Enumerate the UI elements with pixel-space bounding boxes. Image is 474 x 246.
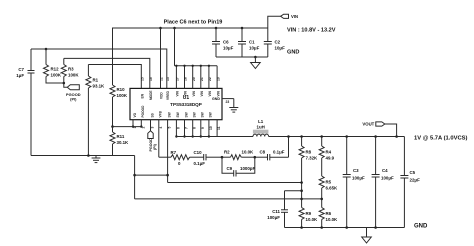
svg-text:R2: R2: [224, 150, 230, 155]
capacitor C6: [212, 28, 234, 57]
wire VFB row to R8 column: [168, 182, 302, 184]
svg-text:0.1μF: 0.1μF: [194, 161, 206, 166]
flag VIN: [268, 14, 298, 28]
svg-text:R3: R3: [68, 67, 74, 72]
pin 17 VIN bus stub: [192, 66, 194, 89]
svg-text:100K: 100K: [68, 73, 79, 78]
svg-text:VREG: VREG: [166, 90, 170, 100]
pin 3 PGOOD stub: [150, 120, 152, 131]
svg-text:12: 12: [160, 77, 164, 81]
pin 15 VIN bus stub: [175, 66, 177, 89]
svg-text:PGOOD: PGOOD: [141, 105, 145, 118]
svg-text:3: 3: [151, 127, 155, 129]
wire VIN pin bus: [175, 65, 218, 67]
wire trunk to VFB column: [135, 174, 168, 176]
wire VREG rail to pin: [31, 49, 167, 88]
wire VIN top rail: [112, 27, 268, 29]
svg-text:VIN: VIN: [208, 90, 212, 96]
resistor R4: [319, 137, 334, 177]
resistor R5: [319, 176, 338, 208]
svg-text:VIN: VIN: [192, 90, 196, 96]
svg-text:C1: C1: [249, 40, 255, 45]
resistor R11: [110, 127, 129, 156]
pin 23 GND stub: [212, 97, 234, 104]
svg-text:100K: 100K: [51, 73, 62, 78]
svg-text:SW: SW: [167, 112, 171, 117]
svg-text:10μF: 10μF: [249, 46, 260, 51]
inductor L1: [253, 119, 269, 136]
svg-text:R1: R1: [93, 78, 99, 83]
node rail-C4 junction: [374, 135, 377, 138]
svg-text:1V @ 5.7A (1.0VCS): 1V @ 5.7A (1.0VCS): [414, 135, 468, 141]
svg-text:SW: SW: [184, 112, 188, 117]
svg-text:Place C6 next to Pin19: Place C6 next to Pin19: [164, 19, 223, 25]
svg-text:C2: C2: [275, 40, 281, 45]
svg-text:R5: R5: [326, 180, 332, 185]
resistor R2: [222, 150, 255, 160]
svg-text:R9: R9: [306, 211, 312, 216]
pin SW stubs: [175, 120, 177, 137]
svg-text:23: 23: [226, 100, 230, 104]
node R8-trunk junction: [300, 198, 303, 201]
svg-text:C6: C6: [223, 40, 229, 45]
svg-text:5: 5: [168, 127, 172, 129]
svg-text:SS: SS: [150, 113, 154, 117]
ground output: [362, 228, 372, 244]
node capbottom-gnd junction: [254, 56, 257, 59]
svg-text:VFB: VFB: [159, 110, 163, 117]
svg-text:10.0K: 10.0K: [306, 217, 319, 222]
svg-text:6.65K: 6.65K: [326, 186, 339, 191]
resistor R6: [319, 208, 338, 228]
svg-text:C4: C4: [382, 168, 388, 173]
pin 1 VO stub: [132, 120, 134, 127]
svg-text:7: 7: [185, 127, 189, 129]
svg-text:10.0K: 10.0K: [326, 217, 339, 222]
svg-text:VIN: VIN: [184, 90, 188, 96]
resistor R9: [299, 208, 318, 228]
svg-text:8: 8: [193, 127, 197, 129]
wire gnd trunk bottom row: [135, 198, 322, 200]
wire gnd trunk vertical: [134, 156, 136, 199]
flag PGOOD bottom: [148, 131, 157, 152]
svg-text:C10: C10: [194, 150, 203, 155]
node R8-VFBrow junction: [300, 181, 303, 184]
node R2-C8 junction: [254, 156, 257, 159]
svg-text:EN: EN: [141, 93, 145, 98]
svg-text:R4: R4: [326, 150, 332, 155]
svg-text:20: 20: [192, 77, 196, 81]
svg-text:SW: SW: [193, 112, 197, 117]
wire VIN bus feed: [174, 28, 176, 66]
svg-text:VIN : 10.8V - 13.2V: VIN : 10.8V - 13.2V: [287, 27, 336, 33]
svg-text:R6: R6: [326, 211, 332, 216]
svg-text:C8: C8: [260, 150, 266, 155]
svg-text:R10: R10: [117, 87, 126, 92]
node R8-C11row junction: [300, 189, 303, 192]
pin 16 VIN bus stub: [184, 66, 186, 89]
svg-text:4: 4: [159, 127, 163, 129]
svg-text:2: 2: [141, 127, 145, 129]
wire R3 top to MODE pin: [64, 58, 150, 88]
svg-text:10μF: 10μF: [223, 46, 234, 51]
svg-text:R11: R11: [117, 134, 125, 139]
ground power input: [251, 57, 261, 69]
capacitor C5: [400, 137, 420, 228]
capacitor C3: [343, 137, 365, 228]
svg-text:15: 15: [141, 77, 145, 81]
svg-text:93.1K: 93.1K: [93, 84, 106, 89]
svg-text:18: 18: [184, 77, 188, 81]
svg-text:GND: GND: [414, 224, 428, 230]
svg-text:17: 17: [176, 77, 180, 81]
node rail49-R12 junction: [45, 48, 48, 51]
svg-text:GND: GND: [212, 97, 220, 101]
svg-text:1uH: 1uH: [257, 125, 265, 130]
svg-text:GND: GND: [287, 50, 299, 56]
svg-text:VIN: VIN: [291, 14, 298, 19]
pin names bottom inside: [133, 105, 213, 118]
svg-text:1μF: 1μF: [16, 73, 24, 78]
wire EN riser from VIN rail: [160, 28, 162, 88]
svg-text:100K: 100K: [117, 93, 128, 98]
capacitor C10: [194, 150, 223, 166]
node SW bus junctions: [175, 135, 177, 137]
svg-text:1: 1: [133, 127, 137, 129]
resistor R12: [44, 49, 64, 83]
pin names top inside: [141, 90, 221, 100]
svg-text:100μF: 100μF: [267, 215, 280, 220]
pin numbers bottom row: [133, 126, 221, 130]
svg-text:C5: C5: [410, 170, 416, 175]
svg-text:11: 11: [217, 126, 221, 130]
svg-text:VIN: VIN: [216, 90, 220, 96]
node gndrail-R6 junction: [320, 226, 323, 229]
svg-text:10μF: 10μF: [275, 46, 286, 51]
node gndrail-C4 junction: [374, 226, 377, 229]
node rail-C3 junction: [345, 135, 348, 138]
capacitor C8: [255, 150, 289, 161]
svg-text:13: 13: [166, 77, 170, 81]
svg-text:R12: R12: [51, 67, 60, 72]
wire VOUT rail: [269, 136, 405, 138]
node trunk-175 junction: [133, 174, 136, 177]
node rail-R4 junction: [320, 135, 323, 138]
svg-text:VOUT: VOUT: [362, 122, 374, 127]
node R5-trunk junction: [320, 198, 323, 201]
svg-text:10.0K: 10.0K: [242, 150, 255, 155]
svg-text:C11: C11: [272, 209, 280, 214]
resistor R10: [110, 28, 128, 127]
svg-text:10: 10: [209, 126, 213, 130]
svg-text:SW: SW: [201, 112, 205, 117]
capacitor C11: [267, 191, 301, 228]
svg-text:100μF: 100μF: [381, 176, 394, 181]
svg-text:16: 16: [149, 77, 153, 81]
svg-text:L1: L1: [258, 119, 264, 124]
capacitor C9 parallel branch: [222, 157, 255, 176]
capacitor C1: [238, 28, 260, 57]
svg-text:49.9: 49.9: [326, 156, 335, 161]
svg-text:7.32K: 7.32K: [306, 156, 319, 161]
resistor R7: [159, 150, 204, 166]
op-amp U1 TPS53318DQP body: [130, 88, 222, 119]
svg-text:(PI): (PI): [70, 97, 77, 102]
wire analog ground row: [31, 155, 135, 157]
svg-text:C3: C3: [353, 168, 359, 173]
svg-text:MODE: MODE: [149, 90, 153, 100]
svg-text:22: 22: [208, 77, 212, 81]
svg-text:1000pF: 1000pF: [240, 166, 255, 171]
resistor R1: [86, 65, 105, 156]
svg-text:VIN: VIN: [200, 90, 204, 96]
svg-text:C7: C7: [18, 67, 24, 72]
capacitor C2: [264, 28, 285, 57]
svg-text:SW: SW: [209, 112, 213, 117]
node R1-gndrow junction: [87, 154, 90, 157]
svg-text:(PI): (PI): [153, 143, 157, 150]
capacitor C7: [16, 49, 34, 156]
wire input cap bottom rail: [216, 56, 268, 58]
node rail-VOUT junction: [395, 135, 398, 138]
svg-text:22μF: 22μF: [410, 178, 421, 183]
wire output gnd rail: [285, 227, 405, 229]
svg-text:6: 6: [176, 127, 180, 129]
svg-text:VO: VO: [133, 112, 137, 117]
svg-text:SW: SW: [176, 112, 180, 117]
capacitor C4: [372, 137, 394, 228]
node rail-VINbus junction: [173, 27, 176, 30]
svg-text:21: 21: [200, 77, 204, 81]
svg-text:R7: R7: [171, 150, 177, 155]
pin 18 VIN bus stub: [200, 66, 202, 89]
svg-text:0.1μF: 0.1μF: [273, 150, 285, 155]
wire pin1-2 to R10 R11: [113, 126, 142, 128]
svg-text:R8: R8: [306, 150, 312, 155]
pin 2 stub: [140, 120, 142, 127]
wire SW-VOUT rail: [176, 136, 253, 138]
resistor R3: [61, 58, 79, 87]
resistor R8: [299, 137, 318, 208]
node rail-R8 junction: [300, 135, 303, 138]
svg-text:VDD: VDD: [160, 92, 164, 99]
svg-text:C9: C9: [227, 166, 233, 171]
flag VOUT: [362, 122, 396, 137]
node R12-R3 bottom junction: [63, 82, 66, 85]
ground IC pad 3-bar: [229, 99, 238, 113]
pin numbers top row: [141, 77, 221, 81]
node gndrail-C3 junction: [345, 226, 348, 229]
node VFB comp junction: [221, 156, 224, 159]
svg-text:VIN: VIN: [176, 90, 180, 96]
pin 20 VIN bus stub: [208, 66, 210, 89]
node rail-C1 junction: [241, 27, 244, 30]
pin 4 SS stub: [158, 120, 160, 158]
svg-text:100μF: 100μF: [352, 176, 365, 181]
wire R1 top to EN rail pin: [88, 65, 141, 89]
node gndrail-R9 junction: [300, 226, 303, 229]
pin 19 VIN bus stub: [216, 66, 218, 89]
svg-text:9: 9: [201, 127, 205, 129]
wire C8 up to rail: [288, 137, 290, 158]
ground analog 3-bar: [92, 156, 101, 163]
node rail-EN junction: [159, 27, 162, 30]
flag PGOOD left: [66, 85, 81, 102]
node rail-C8 junction: [287, 135, 290, 138]
node R10-R11-pin junction: [111, 125, 114, 128]
svg-text:19: 19: [216, 77, 220, 81]
node rail-C6 junction: [215, 27, 218, 30]
svg-text:TPS53318DQP: TPS53318DQP: [170, 102, 202, 107]
pin 5 VFB stub: [167, 120, 169, 183]
svg-text:30.1K: 30.1K: [117, 140, 130, 145]
